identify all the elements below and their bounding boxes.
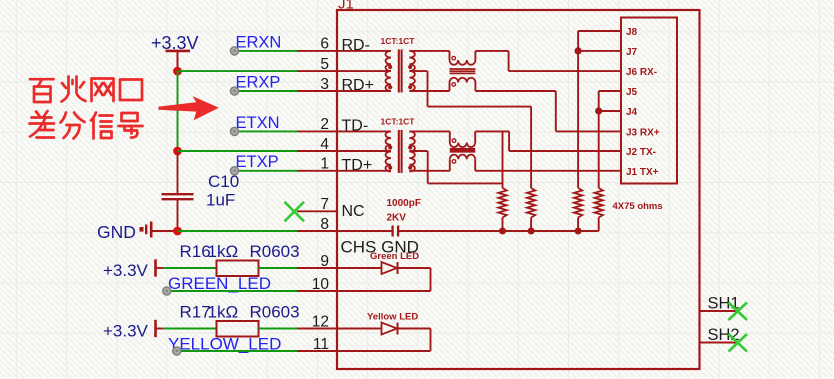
net label ETXN bbox=[236, 114, 280, 132]
wire R17 right bbox=[259, 328, 298, 330]
net label GREEN_LED bbox=[168, 274, 271, 293]
pin-end circle YELLOW_LED bbox=[173, 347, 181, 355]
wire T2 secondary bottom to choke L2 bbox=[409, 159, 449, 171]
wire J8 to R3 bbox=[578, 31, 621, 51]
pin stub J1 left y=151.0 bbox=[297, 150, 337, 152]
svg-text:ERXN: ERXN bbox=[236, 34, 282, 52]
pin stub J1 left y=328.5 bbox=[297, 328, 337, 330]
wire R17 left bbox=[157, 328, 218, 330]
pin stub J1 left y=268.0 bbox=[297, 267, 337, 269]
svg-text:ETXP: ETXP bbox=[236, 153, 279, 171]
pin stub SH2 bbox=[700, 342, 738, 344]
diode Yellow LED bbox=[337, 312, 431, 352]
svg-text:J1: J1 bbox=[338, 0, 354, 13]
wire T1 secondary center tap to R2 bbox=[409, 71, 531, 188]
wire J1 pin to transformer y=50.9 bbox=[337, 50, 391, 52]
transformer T1 (RX) secondary winding bbox=[409, 51, 414, 91]
pin number 10 bbox=[312, 276, 330, 293]
wire choke L2 top out to J2 bbox=[475, 131, 621, 151]
pin-end circle GREEN_LED bbox=[163, 287, 171, 295]
power flag +3.3V (top) bbox=[151, 33, 199, 71]
svg-text:10: 10 bbox=[312, 276, 330, 293]
svg-text:NC: NC bbox=[342, 203, 365, 220]
svg-text:J8: J8 bbox=[626, 27, 638, 38]
svg-text:R16: R16 bbox=[180, 242, 211, 261]
transformer T1 (RX) phase dots bbox=[388, 65, 412, 89]
pin stub J1 left y=91.0 bbox=[297, 90, 337, 92]
jack pin label J8 bbox=[626, 27, 638, 38]
net label ERXN bbox=[236, 34, 282, 52]
svg-text:11: 11 bbox=[313, 336, 329, 353]
wire net ETXP bbox=[237, 170, 298, 172]
svg-text:1uF: 1uF bbox=[206, 191, 235, 210]
connector J1 outline bbox=[337, 10, 700, 369]
wire choke L1 bottom out to J3 bbox=[475, 83, 621, 132]
svg-text:1CT:1CT: 1CT:1CT bbox=[381, 36, 416, 46]
diode Green LED bbox=[337, 251, 431, 291]
jack pin label J3 RX+ bbox=[626, 127, 660, 138]
svg-text:8: 8 bbox=[320, 216, 329, 233]
wire rail to C10 bbox=[177, 151, 179, 194]
svg-text:4X75 ohms: 4X75 ohms bbox=[613, 201, 663, 212]
ground symbol GND bbox=[97, 222, 178, 243]
pin number 1 bbox=[320, 156, 329, 173]
pin stub J1 left y=211.3 bbox=[297, 210, 337, 212]
transformer T2 (TX) phase dots bbox=[388, 145, 412, 169]
wire net pin8 (GND to J1.8) bbox=[178, 230, 298, 232]
wire T1 secondary top to choke L1 bbox=[409, 51, 449, 60]
svg-text:1kΩ: 1kΩ bbox=[208, 242, 239, 261]
wire net pin4 (+3.3V to J1.4) bbox=[178, 150, 298, 152]
junction dot J7/J8 bbox=[575, 47, 582, 54]
svg-text:ETXN: ETXN bbox=[236, 114, 280, 132]
jack pin label J1 TX+ bbox=[626, 167, 659, 178]
wire R16 right bbox=[259, 267, 298, 269]
transformer T2 (TX) secondary winding bbox=[409, 131, 414, 171]
svg-text:+3.3V: +3.3V bbox=[103, 322, 149, 341]
pin number 5 bbox=[320, 56, 329, 73]
svg-text:9: 9 bbox=[320, 253, 329, 270]
pin number 4 bbox=[320, 136, 329, 153]
wire net pin5 (+3.3V to J1.5) bbox=[178, 70, 298, 72]
wire J1 pin to transformer y=131.4 bbox=[337, 130, 391, 132]
svg-text:7: 7 bbox=[320, 196, 329, 213]
jack pin label J5 bbox=[626, 87, 638, 98]
pin number 6 bbox=[320, 36, 329, 53]
svg-text:Yellow LED: Yellow LED bbox=[367, 312, 418, 323]
jack pin label J4 bbox=[626, 107, 638, 118]
jack pin label J7 bbox=[626, 47, 638, 58]
pin stub J1 left y=291.0 bbox=[297, 290, 337, 292]
svg-text:ERXP: ERXP bbox=[236, 74, 281, 92]
transformer T2 (TX) primary winding bbox=[386, 131, 391, 171]
net label SH1 bbox=[708, 295, 740, 313]
wire J1 pin to transformer y=71.1 bbox=[337, 70, 391, 72]
wire net GREEN_LED bbox=[169, 290, 297, 292]
no-connect flag SH1 bbox=[729, 303, 748, 321]
svg-text:GND: GND bbox=[97, 222, 136, 242]
pin stub J1 left y=50.9 bbox=[297, 50, 337, 52]
pin number 7 bbox=[320, 196, 329, 213]
svg-text:J1 TX+: J1 TX+ bbox=[626, 167, 659, 178]
svg-text:12: 12 bbox=[312, 313, 329, 330]
net label ETXP bbox=[236, 153, 279, 171]
transformer T1 (RX) label 1CT:1CT bbox=[381, 36, 416, 46]
choke L2 bottom winding bbox=[450, 155, 475, 164]
pin-end circle ERXN bbox=[230, 47, 238, 55]
pin name NC bbox=[342, 203, 365, 220]
jack pin label J6 RX- bbox=[626, 67, 657, 78]
transformer T1 (RX) primary winding bbox=[386, 51, 391, 91]
pin number 3 bbox=[320, 76, 329, 93]
resistor R2 75ohm bbox=[527, 188, 535, 231]
choke L1 top winding bbox=[450, 56, 476, 64]
pin number 12 bbox=[312, 313, 329, 330]
no-connect flag SH2 bbox=[729, 334, 748, 352]
junction dot node +3.3V/pin4 bbox=[173, 147, 182, 156]
junction dot J4/J5 bbox=[595, 107, 602, 114]
pin-end circle ERXP bbox=[230, 87, 238, 95]
pin number 8 bbox=[320, 216, 329, 233]
junction dot node GND/pin8 bbox=[173, 227, 182, 236]
pin stub J1 left y=351.0 bbox=[297, 350, 337, 352]
choke L1 bottom winding bbox=[450, 78, 476, 86]
wire J1 pin to transformer y=91.0 bbox=[337, 90, 391, 92]
pin name TD+ bbox=[342, 157, 373, 174]
transformer T1 (RX) core bbox=[399, 49, 402, 92]
wire J7/J8 down to R3 bbox=[577, 51, 579, 188]
capacitor C? 1000pF 2KV bbox=[337, 198, 421, 237]
wire R1 feed bbox=[502, 131, 504, 188]
wire termination bus bbox=[398, 230, 598, 232]
pin number 11 bbox=[313, 336, 329, 353]
svg-text:J3 RX+: J3 RX+ bbox=[626, 127, 660, 138]
svg-text:5: 5 bbox=[320, 56, 329, 73]
jack pin label J2 TX- bbox=[626, 147, 656, 158]
annotation chinese text 百兆网口差分信号 bbox=[30, 77, 143, 139]
wire net YELLOW_LED bbox=[179, 350, 297, 352]
junction dot bus R3 bbox=[575, 228, 582, 235]
power flag +3.3V (R17 row) bbox=[103, 320, 156, 341]
net label YELLOW_LED bbox=[168, 335, 281, 354]
pin number 9 bbox=[320, 253, 329, 270]
wire choke L1 top out to J6 bbox=[475, 51, 621, 71]
svg-text:J2 TX-: J2 TX- bbox=[626, 147, 656, 158]
wire J4/J5 down to R4 bbox=[598, 111, 600, 188]
net label SH2 bbox=[708, 326, 740, 344]
junction dot node +3.3V/pin5 bbox=[173, 67, 182, 76]
svg-text:R0603: R0603 bbox=[250, 303, 300, 322]
jack pins box outline bbox=[621, 18, 677, 184]
svg-text:J7: J7 bbox=[626, 47, 638, 58]
pin stub J1 left y=71.1 bbox=[297, 70, 337, 72]
pin name RD- bbox=[342, 37, 370, 54]
pin stub SH1 bbox=[700, 310, 738, 312]
transformer T2 (TX) label 1CT:1CT bbox=[381, 117, 416, 127]
pin name RD+ bbox=[342, 77, 374, 94]
choke L2 core bbox=[450, 149, 475, 152]
wire J1 pin to transformer y=151.0 bbox=[337, 150, 391, 152]
resistor R4 75ohm bbox=[595, 188, 603, 231]
svg-text:1: 1 bbox=[320, 156, 329, 173]
wire net ERXP bbox=[237, 90, 298, 92]
svg-text:+3.3V: +3.3V bbox=[103, 261, 149, 280]
transformer T2 (TX) core bbox=[399, 130, 402, 173]
annotation red arrow bbox=[159, 96, 219, 120]
wire J1 pin to transformer y=170.8 bbox=[337, 170, 391, 172]
svg-text:6: 6 bbox=[320, 36, 329, 53]
junction dot bus R1 bbox=[499, 228, 506, 235]
svg-text:1kΩ: 1kΩ bbox=[208, 303, 239, 322]
pin stub J1 left y=231.0 bbox=[297, 230, 337, 232]
wire J7 stub bbox=[578, 50, 621, 52]
wire J4 stub bbox=[599, 110, 621, 112]
svg-text:J6 RX-: J6 RX- bbox=[626, 67, 657, 78]
wire net ETXN bbox=[237, 130, 298, 132]
svg-text:2: 2 bbox=[320, 116, 329, 133]
wire +3.3V rail (green vertical) bbox=[177, 71, 179, 151]
capacitor C10 bbox=[162, 172, 240, 231]
resistor R3 75ohm bbox=[574, 188, 582, 231]
net label ERXP bbox=[236, 74, 281, 92]
svg-text:R17: R17 bbox=[180, 303, 211, 322]
choke L2 top winding bbox=[450, 139, 475, 147]
resistor R1 75ohm bbox=[498, 188, 506, 231]
wire T2 secondary top to choke L2 bbox=[409, 131, 449, 142]
svg-text:1000pF: 1000pF bbox=[387, 198, 421, 209]
wire net ERXN bbox=[237, 50, 298, 52]
svg-text:J4: J4 bbox=[626, 107, 638, 118]
svg-text:2KV: 2KV bbox=[387, 213, 407, 224]
pin number 2 bbox=[320, 116, 329, 133]
pin name CHS GND bbox=[341, 238, 419, 257]
pin-end circle ETXP bbox=[230, 167, 238, 175]
wire choke L2 bottom out to J1pin bbox=[475, 159, 621, 171]
svg-text:3: 3 bbox=[320, 76, 329, 93]
svg-text:R0603: R0603 bbox=[250, 242, 300, 261]
reference designator J1 bbox=[338, 0, 354, 13]
resistor R17 1k R0603 bbox=[180, 303, 300, 337]
wire J5 to R4 bbox=[599, 91, 621, 111]
pin-end circle ETXN bbox=[230, 127, 238, 135]
wire R16 left bbox=[157, 267, 218, 269]
resistor R16 1k R0603 bbox=[180, 242, 300, 276]
choke L1 core bbox=[450, 69, 476, 73]
svg-text:Green LED: Green LED bbox=[370, 251, 419, 262]
pin stub J1 left y=170.8 bbox=[297, 170, 337, 172]
wire T1 secondary bottom to choke L1 bbox=[409, 83, 449, 92]
no-connect flag pin 7 bbox=[285, 202, 305, 222]
wire T2 secondary center tap bbox=[409, 151, 502, 183]
label 4X75 ohms bbox=[613, 201, 663, 212]
svg-text:1CT:1CT: 1CT:1CT bbox=[381, 117, 416, 127]
svg-text:J5: J5 bbox=[626, 87, 638, 98]
power flag +3.3V (R16 row) bbox=[103, 259, 156, 280]
svg-text:4: 4 bbox=[320, 136, 329, 153]
pin stub J1 left y=131.4 bbox=[297, 130, 337, 132]
pin name TD- bbox=[342, 117, 369, 134]
junction dot bus R2 bbox=[528, 228, 535, 235]
